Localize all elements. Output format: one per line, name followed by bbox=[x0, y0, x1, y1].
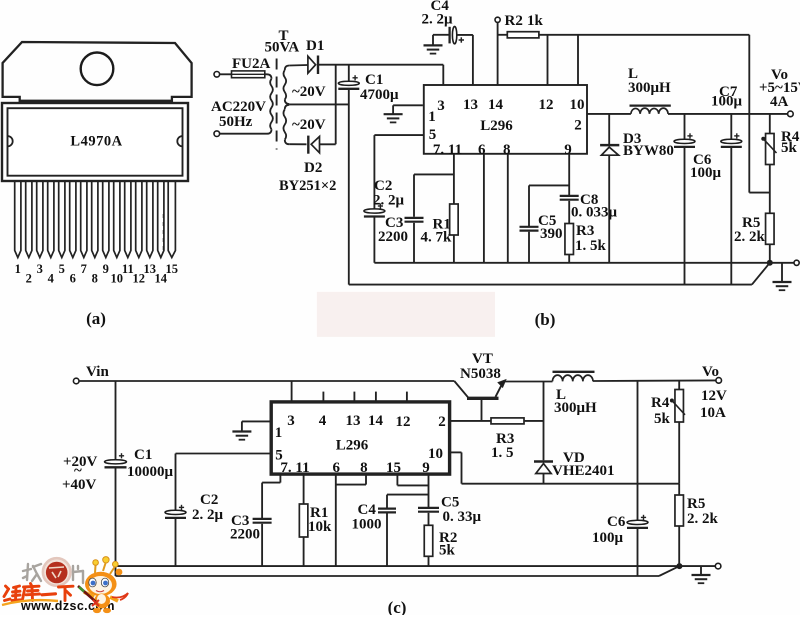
svg-text:5k: 5k bbox=[654, 411, 671, 427]
svg-text:10k: 10k bbox=[308, 519, 332, 535]
svg-text:2. 2μ: 2. 2μ bbox=[422, 12, 454, 28]
svg-text:2: 2 bbox=[26, 272, 32, 286]
svg-text:5k: 5k bbox=[781, 140, 798, 156]
svg-text:3: 3 bbox=[437, 98, 445, 114]
svg-text:1k: 1k bbox=[527, 13, 544, 29]
svg-text:R3: R3 bbox=[576, 223, 594, 239]
svg-text:VT: VT bbox=[472, 351, 493, 367]
svg-text:100μ: 100μ bbox=[711, 94, 743, 110]
svg-text:5k: 5k bbox=[439, 543, 456, 559]
svg-text:12: 12 bbox=[396, 414, 411, 430]
svg-text:0. 33μ: 0. 33μ bbox=[443, 509, 482, 525]
svg-text:4A: 4A bbox=[770, 94, 789, 110]
svg-text:+40V: +40V bbox=[62, 477, 97, 493]
svg-text:(c): (c) bbox=[388, 598, 407, 615]
svg-text:9: 9 bbox=[422, 460, 430, 476]
svg-text:2: 2 bbox=[574, 118, 582, 134]
svg-text:D1: D1 bbox=[306, 38, 324, 54]
svg-text:4700μ: 4700μ bbox=[360, 87, 399, 103]
svg-text:R4: R4 bbox=[651, 395, 670, 411]
svg-text:4: 4 bbox=[48, 272, 55, 286]
svg-text:FU2A: FU2A bbox=[232, 56, 270, 72]
svg-text:L296: L296 bbox=[336, 438, 369, 454]
svg-text:14: 14 bbox=[488, 97, 504, 113]
svg-text:(b): (b) bbox=[535, 310, 556, 329]
svg-text:7. 11: 7. 11 bbox=[280, 460, 309, 476]
svg-text:BY251×2: BY251×2 bbox=[279, 178, 336, 194]
svg-text:2. 2k: 2. 2k bbox=[734, 229, 766, 245]
svg-text:C1: C1 bbox=[365, 72, 383, 88]
svg-text:1: 1 bbox=[428, 109, 436, 125]
svg-text:7. 11: 7. 11 bbox=[433, 142, 462, 158]
svg-text:1000: 1000 bbox=[352, 517, 382, 533]
svg-text:2200: 2200 bbox=[378, 229, 408, 245]
svg-text:BYW80: BYW80 bbox=[623, 143, 674, 159]
svg-text:6: 6 bbox=[70, 272, 76, 286]
svg-text:15: 15 bbox=[166, 262, 179, 276]
svg-text:L296: L296 bbox=[480, 118, 513, 134]
svg-text:(a): (a) bbox=[86, 309, 106, 328]
svg-text:5: 5 bbox=[59, 262, 65, 276]
svg-text:Vin: Vin bbox=[86, 364, 109, 380]
svg-text:C6: C6 bbox=[607, 514, 626, 530]
svg-text:2. 2k: 2. 2k bbox=[687, 511, 719, 527]
svg-text:AC220V: AC220V bbox=[211, 99, 266, 115]
svg-text:1. 5: 1. 5 bbox=[491, 445, 514, 461]
svg-text:3: 3 bbox=[287, 413, 295, 429]
svg-text:6: 6 bbox=[478, 142, 486, 158]
svg-text:R2: R2 bbox=[505, 13, 523, 29]
svg-text:100μ: 100μ bbox=[690, 165, 722, 181]
svg-text:R5: R5 bbox=[687, 496, 705, 512]
svg-text:10A: 10A bbox=[700, 405, 726, 421]
svg-text:2. 2μ: 2. 2μ bbox=[373, 193, 405, 209]
svg-text:10: 10 bbox=[428, 446, 443, 462]
svg-text:D2: D2 bbox=[304, 160, 322, 176]
svg-text:4. 7k: 4. 7k bbox=[421, 230, 453, 246]
svg-text:10: 10 bbox=[570, 97, 585, 113]
svg-text:0. 033μ: 0. 033μ bbox=[571, 205, 618, 221]
svg-text:10000μ: 10000μ bbox=[127, 464, 174, 480]
svg-text:~20V: ~20V bbox=[292, 117, 326, 133]
svg-text:2. 2μ: 2. 2μ bbox=[192, 507, 224, 523]
svg-text:13: 13 bbox=[463, 97, 478, 113]
svg-text:1. 5k: 1. 5k bbox=[575, 238, 607, 254]
svg-text:15: 15 bbox=[386, 460, 401, 476]
svg-text:9: 9 bbox=[564, 142, 572, 158]
svg-text:8: 8 bbox=[92, 272, 98, 286]
svg-text:Vo: Vo bbox=[702, 364, 719, 380]
svg-text:3: 3 bbox=[37, 262, 43, 276]
svg-text:L4970A: L4970A bbox=[70, 134, 122, 150]
svg-text:1: 1 bbox=[275, 425, 283, 441]
svg-text:C1: C1 bbox=[134, 447, 152, 463]
svg-text:VHE2401: VHE2401 bbox=[552, 463, 615, 479]
svg-text:390: 390 bbox=[540, 226, 563, 242]
svg-text:2: 2 bbox=[438, 414, 446, 430]
svg-text:100μ: 100μ bbox=[592, 530, 624, 546]
svg-text:9: 9 bbox=[103, 262, 109, 276]
svg-text:1: 1 bbox=[15, 262, 21, 276]
svg-text:50Hz: 50Hz bbox=[219, 114, 253, 130]
svg-text:8: 8 bbox=[503, 142, 511, 158]
svg-text:50VA: 50VA bbox=[265, 40, 300, 56]
svg-text:8: 8 bbox=[360, 460, 368, 476]
svg-text:5: 5 bbox=[429, 127, 437, 143]
svg-text:12V: 12V bbox=[701, 388, 727, 404]
svg-text:300μH: 300μH bbox=[628, 80, 671, 96]
svg-text:2200: 2200 bbox=[230, 527, 260, 543]
svg-text:300μH: 300μH bbox=[554, 400, 597, 416]
svg-text:13: 13 bbox=[346, 413, 361, 429]
svg-text:N5038: N5038 bbox=[460, 366, 501, 382]
svg-text:12: 12 bbox=[539, 97, 554, 113]
svg-text:7: 7 bbox=[81, 262, 87, 276]
svg-text:4: 4 bbox=[319, 413, 327, 429]
svg-text:14: 14 bbox=[368, 413, 384, 429]
svg-text:~20V: ~20V bbox=[292, 84, 326, 100]
svg-text:C2: C2 bbox=[200, 492, 218, 508]
svg-text:6: 6 bbox=[332, 460, 340, 476]
